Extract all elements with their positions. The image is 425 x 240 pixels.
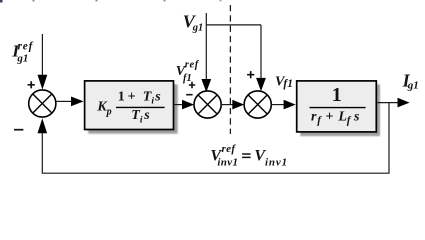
svg-text:r: r (311, 109, 317, 124)
svg-text:i: i (151, 96, 154, 106)
sign plus at S3 (247, 71, 254, 78)
arrowhead into S3 top (256, 78, 266, 91)
label Ig1_ref (input reference current) (11, 40, 33, 64)
feedback wire from output node down, across bottom, up into S1 (42, 103, 389, 173)
svg-text:+: + (128, 90, 136, 105)
svg-text:1: 1 (118, 90, 125, 105)
PI block shadow (88, 84, 178, 133)
dashed separator line (229, 5, 231, 134)
svg-text:i: i (140, 115, 143, 125)
arrowhead into S1 top (38, 75, 48, 90)
svg-text:s: s (353, 109, 360, 124)
sign plus at S2 (189, 82, 195, 88)
svg-text:s: s (154, 89, 161, 104)
svg-text:+: + (326, 109, 334, 124)
denominator rf + Lf s (311, 109, 360, 126)
wire S1 to PI block (56, 100, 72, 102)
arrowhead output Ig1 (398, 98, 410, 108)
wire input Ig1_ref vertical into S1 (41, 34, 43, 77)
wire PI block to S2 (174, 104, 182, 106)
wire Vg1 vertical into S2 (205, 13, 207, 80)
label Ig1 (output current) (402, 70, 419, 91)
fraction bar of PI block (116, 106, 165, 108)
svg-text:1: 1 (332, 84, 342, 106)
wire S2 to S3 (221, 104, 233, 106)
denominator Ti s (131, 108, 150, 125)
svg-text:inv1: inv1 (217, 156, 238, 168)
svg-text:p: p (106, 107, 112, 118)
arrowhead into S2 left (182, 100, 194, 110)
label Vf1_ref (176, 60, 200, 84)
label Kp (96, 100, 111, 118)
svg-text:g1: g1 (407, 80, 419, 92)
arrowhead into S2 top (201, 79, 211, 92)
svg-text:ref: ref (18, 40, 34, 52)
label Vinv1_ref = Vinv1 (node between S2 and S3) (210, 143, 288, 169)
sign plus at S1 (28, 81, 35, 88)
svg-text:inv1: inv1 (265, 156, 288, 168)
label Vg1 (grid voltage) (183, 12, 204, 34)
svg-text:s: s (143, 108, 150, 123)
summing junction S1 (29, 90, 56, 117)
arrowhead into S3 left (232, 100, 244, 110)
svg-text:f1: f1 (183, 73, 192, 84)
crop artifact specks (33, 0, 222, 1)
svg-text:ref: ref (222, 143, 237, 155)
plant block shadow (300, 84, 380, 136)
crop artifact top-left corner (0, 0, 3, 3)
svg-text:f1: f1 (283, 78, 293, 90)
wire plant block to output (377, 102, 398, 104)
sign minus at S1 (14, 129, 23, 131)
label Vf1 (275, 75, 293, 90)
wire Vg1 vertical into S3 (260, 25, 262, 78)
summing junction S3 (244, 91, 271, 118)
block G2 plant 1/(rf+Lf s) (297, 81, 377, 132)
arrowhead into plant block (284, 100, 296, 110)
svg-text:ref: ref (185, 60, 200, 71)
arrowhead into PI block (71, 97, 84, 107)
svg-text:L: L (337, 109, 347, 124)
block G1 PI controller (85, 81, 174, 130)
svg-text:g1: g1 (192, 22, 204, 33)
wire S3 to plant block (271, 104, 284, 106)
wire Vg1 horizontal branch (206, 24, 261, 26)
summing junction S2 (194, 91, 221, 118)
fraction bar of plant block (310, 107, 366, 109)
arrowhead feedback into S1 bottom (38, 118, 48, 133)
sign minus at S2 (186, 94, 192, 96)
svg-text:g1: g1 (16, 52, 28, 64)
numerator 1 + Ti s (118, 89, 162, 106)
